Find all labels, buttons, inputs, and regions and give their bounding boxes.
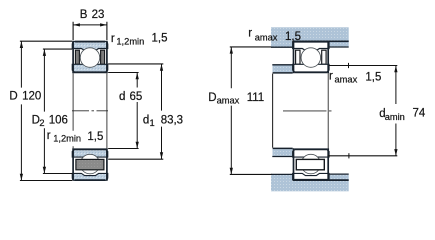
svg-text:1,2min: 1,2min [116, 36, 144, 46]
outer ring (top section) [72, 41, 108, 50]
svg-text:amax: amax [335, 74, 358, 84]
dimension da line with arrows [394, 66, 397, 156]
right ball (bottom section) [301, 154, 321, 174]
svg-text:1,5: 1,5 [365, 71, 381, 83]
bore silhouette lines between sections [73, 73, 107, 148]
bearing face lines (bottom section) [73, 148, 107, 181]
dimension B extension lines [73, 22, 107, 40]
housing bore line (bottom) [293, 179, 349, 181]
svg-text:amax: amax [217, 95, 240, 105]
housing shoulder bottom-left [271, 175, 293, 181]
dimension da extension lines [328, 66, 398, 156]
svg-text:r: r [248, 27, 252, 39]
ball (top section) [80, 48, 100, 68]
right bearing face lines (top) [294, 41, 329, 73]
centerline (left view) [72, 110, 108, 112]
svg-text:1,5: 1,5 [152, 33, 168, 45]
svg-text:amax: amax [255, 32, 278, 42]
housing shoulder top-right [329, 41, 349, 47]
svg-text:83,3: 83,3 [161, 115, 183, 127]
right view centerline [283, 110, 332, 112]
dimension D line with arrows [20, 41, 23, 180]
bearing face lines (top section) [73, 41, 107, 73]
dimension d1 line with arrows [160, 64, 163, 159]
svg-text:111: 111 [247, 92, 264, 104]
right shield left bar (top) [296, 50, 300, 64]
svg-text:d: d [143, 115, 149, 127]
housing bore line (top) [293, 40, 349, 42]
right shield right bar (top) [322, 50, 326, 64]
dimension d extension lines [108, 73, 138, 149]
svg-text:1,2min: 1,2min [53, 134, 81, 144]
shield front plate (bottom section) [76, 159, 104, 169]
housing shoulder top-left [271, 41, 293, 47]
svg-text:106: 106 [49, 114, 68, 126]
dimension Da extension lines [230, 47, 272, 174]
shaft shoulder bottom-left [272, 149, 292, 156]
svg-text:r: r [47, 130, 51, 142]
shield right bar (top section) [101, 50, 105, 64]
right shield front plate (bottom) [296, 159, 324, 169]
tick on da bottom extension [348, 153, 350, 158]
right ball (top section) [301, 48, 321, 68]
svg-text:amin: amin [385, 112, 405, 122]
svg-text:23: 23 [92, 9, 105, 21]
ball (bottom section) [80, 154, 100, 174]
svg-text:r: r [111, 33, 115, 45]
svg-text:B: B [80, 9, 88, 21]
shaft surface line (bottom) [273, 147, 293, 149]
dimension Da line with arrows [230, 47, 233, 174]
dimension B line with arrows [73, 23, 106, 26]
right bore silhouette line [327, 73, 329, 148]
shield left bar (top section) [75, 50, 79, 64]
svg-text:1,5: 1,5 [87, 131, 103, 143]
svg-text:65: 65 [130, 91, 143, 103]
inner ring (bottom section) [72, 149, 108, 157]
tick on da top extension [348, 63, 350, 68]
dimension D2 extension lines [43, 49, 72, 173]
housing shoulder bottom-right [329, 175, 349, 181]
right bearing face lines (bottom) [294, 148, 329, 181]
right bearing: outer ring (top section) [293, 42, 329, 51]
right inner ring (top section) [293, 64, 329, 72]
svg-text:d: d [119, 91, 125, 103]
inner ring (top section) [72, 64, 108, 72]
housing top band [271, 27, 349, 41]
dimension D extension lines [20, 41, 72, 180]
shaft surface line (top) [273, 72, 293, 74]
housing bottom band [271, 181, 349, 192]
svg-text:D: D [9, 91, 17, 103]
right inner ring (bottom section) [293, 149, 329, 157]
dimension d1 extension lines [108, 64, 163, 159]
dimension d line with arrows [136, 73, 139, 149]
svg-text:1: 1 [150, 118, 155, 128]
right outer ring (bottom section) [293, 173, 329, 179]
dimension D2 line with arrows [43, 49, 46, 173]
shaft shoulder top-left [272, 65, 292, 72]
svg-text:74: 74 [413, 107, 426, 119]
outer ring (bottom section) [72, 173, 108, 180]
svg-text:1,5: 1,5 [285, 31, 301, 43]
shaft break edge [272, 74, 274, 148]
svg-text:2: 2 [39, 118, 44, 128]
svg-text:D: D [208, 92, 216, 104]
svg-text:r: r [329, 70, 333, 82]
svg-text:120: 120 [22, 91, 41, 103]
